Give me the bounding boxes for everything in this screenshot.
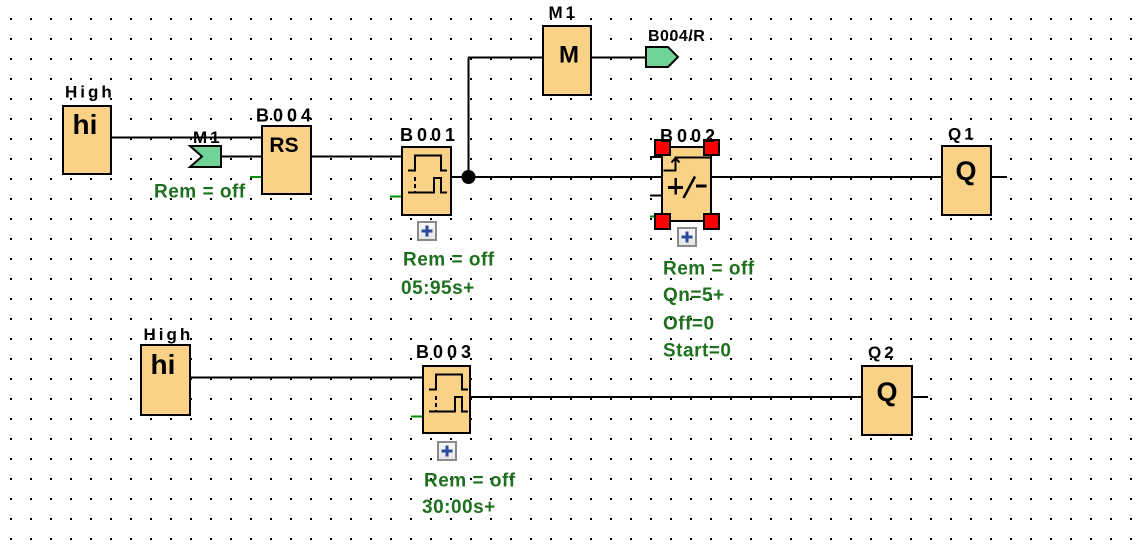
wire junction row to M1 input	[468, 57, 543, 59]
svg-text:B004: B004	[256, 106, 315, 126]
svg-text:Off=0: Off=0	[663, 314, 715, 335]
wire flag M1 to B004 R input	[221, 156, 262, 158]
wire B003 output to Q2 input	[470, 396, 862, 398]
pin stub B002 input 3	[650, 195, 662, 197]
icon B002 counter step	[664, 158, 711, 171]
wire B004 output to B001 input	[311, 156, 402, 158]
icon B003 input waveform	[429, 375, 468, 390]
icon B001 dashed edge line	[414, 177, 416, 192]
svg-text:B004/R: B004/R	[648, 28, 705, 45]
output flag B004/R	[646, 47, 678, 67]
wire Q2 output stub	[912, 396, 928, 398]
selection handle B002 top-right	[704, 140, 719, 155]
svg-text:High: High	[65, 83, 115, 102]
selection handle B002 bottom-right	[704, 214, 719, 229]
icon B001 input waveform	[408, 156, 447, 171]
wire hi1 to B004 S input	[111, 137, 262, 139]
icon B003 output waveform	[429, 397, 468, 412]
svg-text:Q: Q	[955, 156, 976, 186]
svg-text:High: High	[144, 325, 194, 344]
svg-text:Rem = off: Rem = off	[154, 182, 246, 203]
selection handle B002 bottom-left	[655, 214, 670, 229]
svg-text:Q2: Q2	[868, 343, 897, 362]
block B002 up/down counter	[662, 147, 711, 221]
svg-text:Qn=5+: Qn=5+	[663, 285, 725, 306]
wire Q1 output stub	[991, 176, 1007, 178]
svg-text:Q: Q	[876, 377, 897, 407]
marker flag M1 (input)	[190, 146, 221, 167]
selection handle B002 top-left	[655, 140, 670, 155]
icon B002 plus sign	[668, 186, 683, 189]
icon B002 minus sign	[696, 185, 707, 188]
wire B001 output to Q1 through B002	[451, 176, 942, 178]
block B001 pulse timer	[402, 147, 451, 215]
parameter button B001	[418, 222, 436, 240]
icon B002 arrow barbs	[672, 158, 676, 163]
wire M1 output to B004/R flag	[591, 57, 646, 59]
svg-text:Rem = off: Rem = off	[403, 250, 495, 271]
block B003 pulse timer	[423, 366, 470, 433]
svg-text:B003: B003	[416, 342, 475, 362]
pin stub B002 input 1	[650, 156, 662, 158]
block M1 marker	[543, 26, 591, 95]
svg-text:Start=0: Start=0	[663, 341, 731, 362]
svg-text:hi: hi	[73, 109, 98, 140]
junction node dot	[462, 170, 476, 184]
svg-text:Rem = off: Rem = off	[663, 259, 755, 280]
icon B001 output waveform	[408, 178, 447, 193]
pin stub B002 Par (green)	[650, 216, 662, 218]
svg-text:Rem = off: Rem = off	[424, 471, 516, 492]
svg-text:hi: hi	[151, 349, 176, 380]
svg-text:B002: B002	[660, 126, 719, 146]
block Q2 output	[862, 366, 912, 435]
pin stub B001 Par (green)	[390, 196, 402, 198]
svg-text:30:00s+: 30:00s+	[422, 497, 496, 518]
svg-text:RS: RS	[269, 134, 298, 157]
icon B002 slash	[684, 177, 696, 199]
svg-text:B001: B001	[400, 125, 459, 145]
block B004 RS latch	[262, 126, 311, 194]
svg-text:M: M	[559, 42, 579, 69]
wire vertical junction to M1 row	[468, 58, 470, 178]
svg-text:M1: M1	[549, 3, 579, 22]
svg-text:Q1: Q1	[948, 125, 977, 144]
wire hi2 to B003 input	[190, 377, 423, 379]
icon B003 dashed edge line	[435, 396, 437, 411]
parameter button B002	[678, 228, 696, 246]
block hi1 (constant High)	[63, 106, 111, 174]
block Q1 output	[942, 146, 991, 215]
block hi2 (constant High)	[141, 345, 190, 415]
svg-text:05:95s+: 05:95s+	[401, 278, 475, 299]
parameter button B003	[438, 442, 456, 460]
pin stub B004 Par (green)	[250, 176, 262, 178]
pin stub B003 Par (green)	[411, 416, 423, 418]
